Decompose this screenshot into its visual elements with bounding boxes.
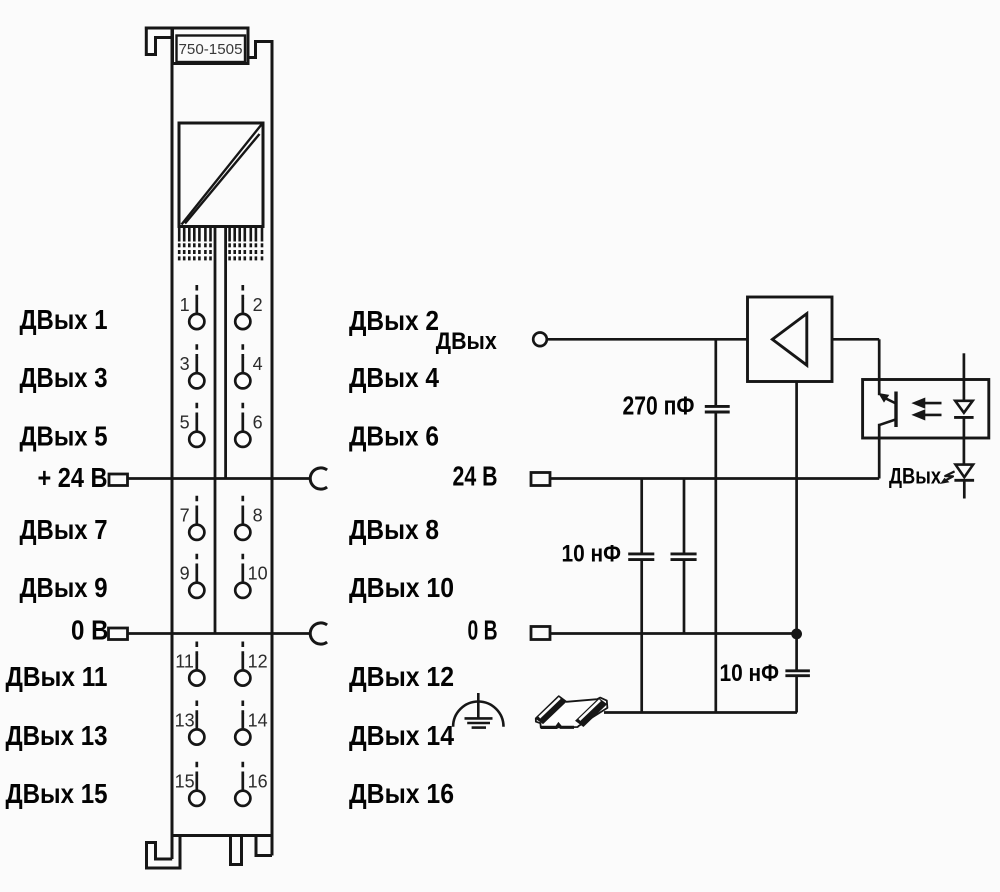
svg-text:10: 10 <box>248 564 268 584</box>
terminal contact 1 <box>189 285 204 329</box>
amplifier box U1 <box>748 297 833 382</box>
terminal contact 9 <box>189 554 204 598</box>
input terminal circle <box>533 333 547 347</box>
module bottom edge <box>172 834 272 837</box>
capacitor C4 10нФ plates <box>785 671 810 676</box>
svg-text:10 нФ: 10 нФ <box>562 541 622 568</box>
light arrow lower <box>913 410 942 420</box>
svg-text:12: 12 <box>248 651 268 671</box>
24V rail terminal square <box>531 473 550 486</box>
phototransistor collector arrowhead <box>879 394 889 402</box>
svg-text:ДВых 3: ДВых 3 <box>20 362 108 393</box>
capacitor C3 lower lead <box>683 561 686 634</box>
svg-text:ДВых 4: ДВых 4 <box>349 362 440 393</box>
0V rail terminal square <box>531 627 550 640</box>
svg-text:10 нФ: 10 нФ <box>720 660 780 687</box>
junction dot 0V node <box>791 629 802 640</box>
terminal contact 2 <box>235 285 250 329</box>
svg-text:ДВых 6: ДВых 6 <box>349 421 439 452</box>
svg-text:ДВых 10: ДВых 10 <box>349 572 454 603</box>
label box outer <box>173 28 249 64</box>
svg-text:11: 11 <box>175 651 194 671</box>
0V rail wire <box>550 632 797 635</box>
terminal contact 4 <box>235 344 250 388</box>
svg-text:13: 13 <box>175 710 195 730</box>
module top-right hook <box>248 42 274 58</box>
svg-text:ДВых 5: ДВых 5 <box>20 421 108 452</box>
LED D2 triangle <box>956 465 974 478</box>
module right edge <box>271 42 274 856</box>
terminal contact 13 <box>189 701 204 745</box>
module top edge <box>145 27 248 30</box>
electronics box diagonal line 2 <box>185 134 260 224</box>
svg-text:270 пФ: 270 пФ <box>623 393 695 421</box>
svg-text:ДВых 9: ДВых 9 <box>20 572 108 603</box>
ground symbol <box>465 693 493 728</box>
capacitor C2 lower lead <box>640 561 643 713</box>
phototransistor emitter diagonal <box>879 419 896 425</box>
svg-text:7: 7 <box>180 506 190 526</box>
module left edge <box>171 28 174 859</box>
wire 270pF lower lead <box>714 413 717 712</box>
svg-text:5: 5 <box>180 413 190 433</box>
svg-text:ДВых: ДВых <box>889 463 942 488</box>
svg-text:ДВых: ДВых <box>436 328 498 355</box>
module bottom-left DIN clip <box>147 836 181 869</box>
svg-text:24 В: 24 В <box>453 461 498 492</box>
terminal contact 6 <box>235 403 250 447</box>
LED D1 cathode bar <box>954 416 974 419</box>
svg-text:2: 2 <box>253 295 263 315</box>
terminal contact 5 <box>189 403 204 447</box>
capacitor C3 upper lead <box>683 479 686 553</box>
terminal contact 11 <box>189 642 204 686</box>
capacitor 270пФ plates <box>705 406 730 412</box>
svg-text:750-1505: 750-1505 <box>179 41 243 58</box>
module bottom-middle foot <box>231 836 242 865</box>
bottom rail wire <box>604 711 797 714</box>
capacitor C2 upper lead <box>640 479 643 553</box>
svg-text:4: 4 <box>253 354 263 374</box>
optocoupler box U2 <box>863 380 989 439</box>
svg-text:ДВых 8: ДВых 8 <box>349 514 439 545</box>
LED D1 triangle <box>955 401 973 413</box>
svg-text:ДВых 12: ДВых 12 <box>349 661 454 692</box>
svg-text:ДВых 2: ДВых 2 <box>349 305 439 336</box>
wire amplifier output <box>832 338 879 341</box>
24V terminal square <box>109 474 128 486</box>
capacitor C4 upper lead <box>795 634 798 670</box>
capacitor C4 lower lead <box>795 677 798 713</box>
LED D2 cathode bar <box>954 479 974 482</box>
svg-text:ДВых 11: ДВых 11 <box>6 661 108 692</box>
module top-left hook <box>146 27 172 55</box>
svg-text:+ 24 В: + 24 В <box>38 462 108 493</box>
svg-text:ДВых 7: ДВых 7 <box>20 514 108 545</box>
LED D2 lower lead stub <box>963 480 966 498</box>
terminal contact 15 <box>189 762 204 806</box>
svg-text:ДВых 16: ДВых 16 <box>349 778 454 809</box>
phototransistor base bar <box>894 392 897 428</box>
electronics box <box>179 123 263 227</box>
0V continuation arc <box>310 623 327 644</box>
contact pins under electronics box <box>179 227 262 261</box>
svg-text:ДВых 13: ДВых 13 <box>6 720 108 751</box>
bus wire right (to 24V) <box>224 227 227 479</box>
svg-text:1: 1 <box>180 295 190 315</box>
capacitor C2 10нФ plates <box>628 554 654 560</box>
LED D1 lower lead <box>963 417 966 464</box>
0V terminal square <box>109 628 128 640</box>
svg-text:9: 9 <box>180 564 190 584</box>
terminal contact 16 <box>235 762 250 806</box>
24V continuation arc <box>310 468 327 489</box>
terminal contact 10 <box>235 554 250 598</box>
wire amplifier bottom lead <box>795 382 798 634</box>
LED D1 upper lead stub <box>963 353 966 400</box>
svg-text:8: 8 <box>253 506 263 526</box>
terminal contact 12 <box>235 642 250 686</box>
terminal contact 8 <box>235 496 250 540</box>
lightning arrow symbol <box>941 471 955 483</box>
wire optocoupler emitter <box>878 424 881 479</box>
24V feed wire <box>128 477 312 480</box>
bus wire left (to 0V) <box>214 227 217 634</box>
DIN rail icon <box>536 696 608 727</box>
svg-text:15: 15 <box>175 772 195 792</box>
svg-text:0 В: 0 В <box>468 615 498 646</box>
ground arc <box>453 702 503 727</box>
svg-text:14: 14 <box>248 710 268 730</box>
amplifier triangle <box>772 314 806 366</box>
terminal contact 7 <box>189 496 204 540</box>
svg-text:ДВых 14: ДВых 14 <box>349 720 455 751</box>
wire 270pF upper lead <box>714 339 717 405</box>
capacitor C3 10нФ plates <box>671 554 697 560</box>
0V feed wire <box>128 632 312 635</box>
electronics box diagonal line 1 <box>182 125 262 225</box>
24V rail wire <box>550 477 879 480</box>
svg-text:ДВых 1: ДВых 1 <box>20 304 108 335</box>
wire optocoupler collector <box>878 339 881 395</box>
wire input to amplifier <box>547 338 748 341</box>
svg-text:6: 6 <box>253 413 263 433</box>
terminal contact 14 <box>235 701 250 745</box>
module bottom-right foot <box>256 836 272 856</box>
light arrow upper <box>913 398 942 408</box>
svg-text:16: 16 <box>248 772 268 792</box>
svg-text:3: 3 <box>180 354 190 374</box>
label box inner <box>177 36 246 63</box>
terminal contact 3 <box>189 344 204 388</box>
svg-text:0 В: 0 В <box>71 615 109 646</box>
phototransistor collector diagonal <box>882 396 897 403</box>
svg-text:ДВых 15: ДВых 15 <box>6 778 108 809</box>
